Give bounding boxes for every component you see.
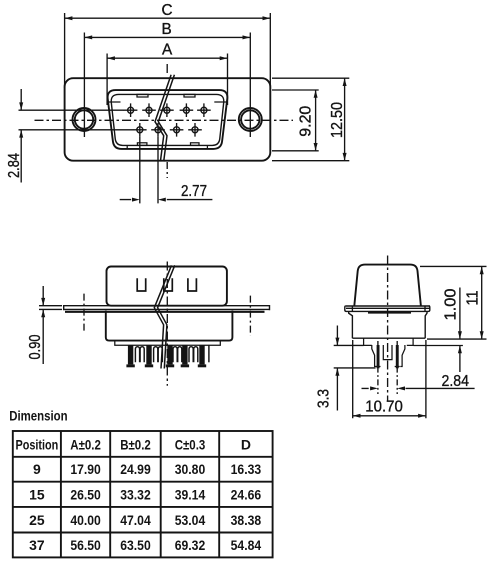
dimension 0.90 extension lines	[39, 306, 62, 310]
svg-text:63.50: 63.50	[120, 537, 151, 553]
dimension 1.00 extension line	[414, 345, 463, 347]
flange plate (side view)	[64, 305, 270, 312]
D-shell inner outline	[111, 94, 224, 145]
table row 37	[29, 537, 261, 553]
centerline (end view)	[387, 256, 389, 402]
tray below body	[364, 338, 414, 345]
svg-text:47.04: 47.04	[120, 512, 151, 528]
shell corner chord top-left	[108, 101, 120, 103]
pin centerline left	[377, 341, 379, 394]
front pin 4	[181, 345, 189, 367]
hole centerline left (side view)	[83, 294, 85, 334]
comb right end wall	[208, 345, 210, 362]
svg-text:D: D	[241, 436, 251, 452]
table row 15	[29, 486, 261, 502]
body with shoulders (end view)	[349, 311, 427, 338]
pin 7	[151, 123, 165, 137]
dimension A line	[107, 57, 227, 59]
svg-text:10.70: 10.70	[365, 398, 403, 415]
mounting hole right	[239, 108, 262, 131]
svg-text:9.20: 9.20	[298, 106, 315, 137]
dimension B extension lines (through hole centers)	[84, 33, 250, 104]
dimension 12.50 extension lines	[272, 78, 349, 161]
shell corner chord top-right	[214, 101, 226, 103]
pin comb (side view)	[126, 345, 208, 367]
dimension B line	[84, 36, 250, 38]
vertical centerline (side view)	[166, 262, 168, 386]
flange rear thick line (end view)	[368, 311, 411, 313]
dimension 2.84 (row spacing, left)	[20, 89, 22, 183]
table grid	[13, 431, 273, 557]
svg-text:17.90: 17.90	[70, 461, 101, 477]
dimension 10.70 line	[353, 415, 426, 417]
pin tower outer profile	[372, 345, 405, 367]
dimension C line	[65, 17, 271, 19]
svg-text:40.00: 40.00	[70, 512, 101, 528]
pin 3	[160, 103, 174, 117]
svg-text:0.90: 0.90	[27, 335, 44, 360]
svg-text:26.50: 26.50	[70, 486, 101, 502]
pin 5	[197, 103, 211, 117]
break line top view (double)	[155, 75, 174, 162]
svg-text:B: B	[162, 21, 172, 38]
svg-text:2.84: 2.84	[6, 153, 23, 178]
svg-text:C±0.3: C±0.3	[175, 436, 206, 452]
break line side view (double)	[154, 265, 175, 368]
pin row extension line upper	[19, 109, 125, 111]
dimension C extension lines	[65, 13, 271, 88]
table row 9	[33, 461, 261, 477]
svg-text:A: A	[162, 42, 173, 59]
table row 25	[29, 512, 261, 528]
svg-text:37: 37	[29, 537, 45, 553]
svg-text:9: 9	[33, 461, 41, 477]
svg-text:3.3: 3.3	[316, 389, 333, 408]
svg-text:C: C	[162, 2, 173, 19]
shell inner bottom step left	[126, 145, 128, 149]
table header row	[16, 436, 251, 452]
svg-text:39.14: 39.14	[175, 486, 206, 502]
D-shell outer outline	[108, 90, 228, 149]
pin 1	[124, 103, 138, 117]
svg-text:53.04: 53.04	[175, 512, 206, 528]
svg-text:1.00: 1.00	[443, 289, 460, 321]
shell tab top-right	[184, 94, 195, 97]
shell tab top-left	[137, 94, 148, 97]
shell (side view)	[107, 267, 227, 306]
dimension 11 line	[481, 266, 483, 339]
pins: top row	[124, 103, 211, 136]
pin 8	[170, 123, 184, 137]
front pin 2	[145, 345, 153, 367]
pin centerline right	[396, 341, 398, 394]
socket mark 3	[188, 278, 197, 291]
svg-text:33.32: 33.32	[120, 486, 151, 502]
dimension 10.70 extension lines	[353, 340, 426, 418]
svg-text:30.80: 30.80	[175, 461, 206, 477]
mounting hole left	[73, 108, 96, 131]
body (side view)	[106, 311, 233, 341]
pin right (end view)	[396, 345, 399, 368]
svg-text:25: 25	[29, 512, 45, 528]
socket mark 1	[137, 278, 146, 291]
body bottom line (end view)	[352, 337, 425, 339]
svg-text:B±0.2: B±0.2	[120, 436, 151, 452]
socket mark 2	[164, 278, 173, 291]
dimension 11 extension lines	[420, 266, 487, 339]
flange outline	[65, 78, 271, 161]
dimension 9.20 extension lines	[272, 90, 319, 151]
dimension A extension lines	[107, 54, 227, 106]
svg-text:16.33: 16.33	[231, 461, 262, 477]
dimension 0.90	[42, 286, 44, 364]
svg-text:24.99: 24.99	[120, 461, 151, 477]
svg-text:54.84: 54.84	[231, 537, 262, 553]
pin row extension line lower	[19, 129, 134, 131]
body side ticks through flange	[352, 306, 425, 311]
front pin 1	[126, 345, 134, 367]
flange (end view)	[345, 306, 430, 313]
pin 9	[188, 123, 202, 137]
svg-text:Position: Position	[16, 436, 59, 452]
shell tab bottom-left	[137, 143, 147, 146]
pin 6	[133, 123, 147, 137]
svg-text:24.66: 24.66	[231, 486, 262, 502]
rear pin arch pair 3	[173, 347, 182, 363]
svg-text:12.50: 12.50	[329, 102, 346, 138]
svg-text:69.32: 69.32	[175, 537, 206, 553]
dimension 9.20 line	[315, 90, 317, 151]
svg-text:11: 11	[465, 291, 482, 306]
dimension 2.77 line + arrows	[120, 199, 213, 201]
rear pin arch pair 2	[154, 347, 163, 363]
dimension 3.3	[336, 326, 338, 411]
front pin 3	[166, 345, 174, 367]
front pin 5	[198, 345, 206, 367]
pin left (end view)	[377, 345, 380, 368]
horizontal centerline through holes	[35, 119, 294, 121]
svg-text:Dimension: Dimension	[9, 407, 67, 423]
pin 4	[180, 103, 194, 117]
svg-text:15: 15	[29, 486, 45, 502]
shell inner bottom step right	[206, 145, 208, 149]
vertical centerline top view (lower stub)	[166, 162, 168, 178]
insulator step (side view)	[115, 341, 221, 346]
shell tab bottom-right	[191, 143, 200, 146]
svg-text:A±0.2: A±0.2	[70, 436, 101, 452]
pin feet outlines	[376, 366, 400, 368]
vertical centerline top view (upper stub)	[166, 64, 168, 75]
pin 2	[142, 103, 156, 117]
dimension 1.00	[459, 288, 461, 373]
dimension 2.77 (pin pitch) extension lines	[140, 137, 158, 204]
svg-text:2.77: 2.77	[181, 183, 207, 200]
rear pin arch pair 1	[135, 347, 144, 363]
flange rear thick line	[65, 311, 265, 313]
svg-text:56.50: 56.50	[70, 537, 101, 553]
dimension 2.84 (end view)	[362, 387, 475, 389]
svg-text:2.84: 2.84	[442, 373, 470, 390]
hole centerline right (side view)	[249, 296, 251, 336]
shell (end view)	[354, 265, 421, 306]
rear pin arch pair 4	[189, 347, 198, 363]
svg-text:38.38: 38.38	[231, 512, 262, 528]
pin tower inner gap	[383, 345, 392, 360]
dimension 3.3 extension lines	[334, 345, 376, 368]
dimension 12.50 line	[344, 78, 346, 161]
